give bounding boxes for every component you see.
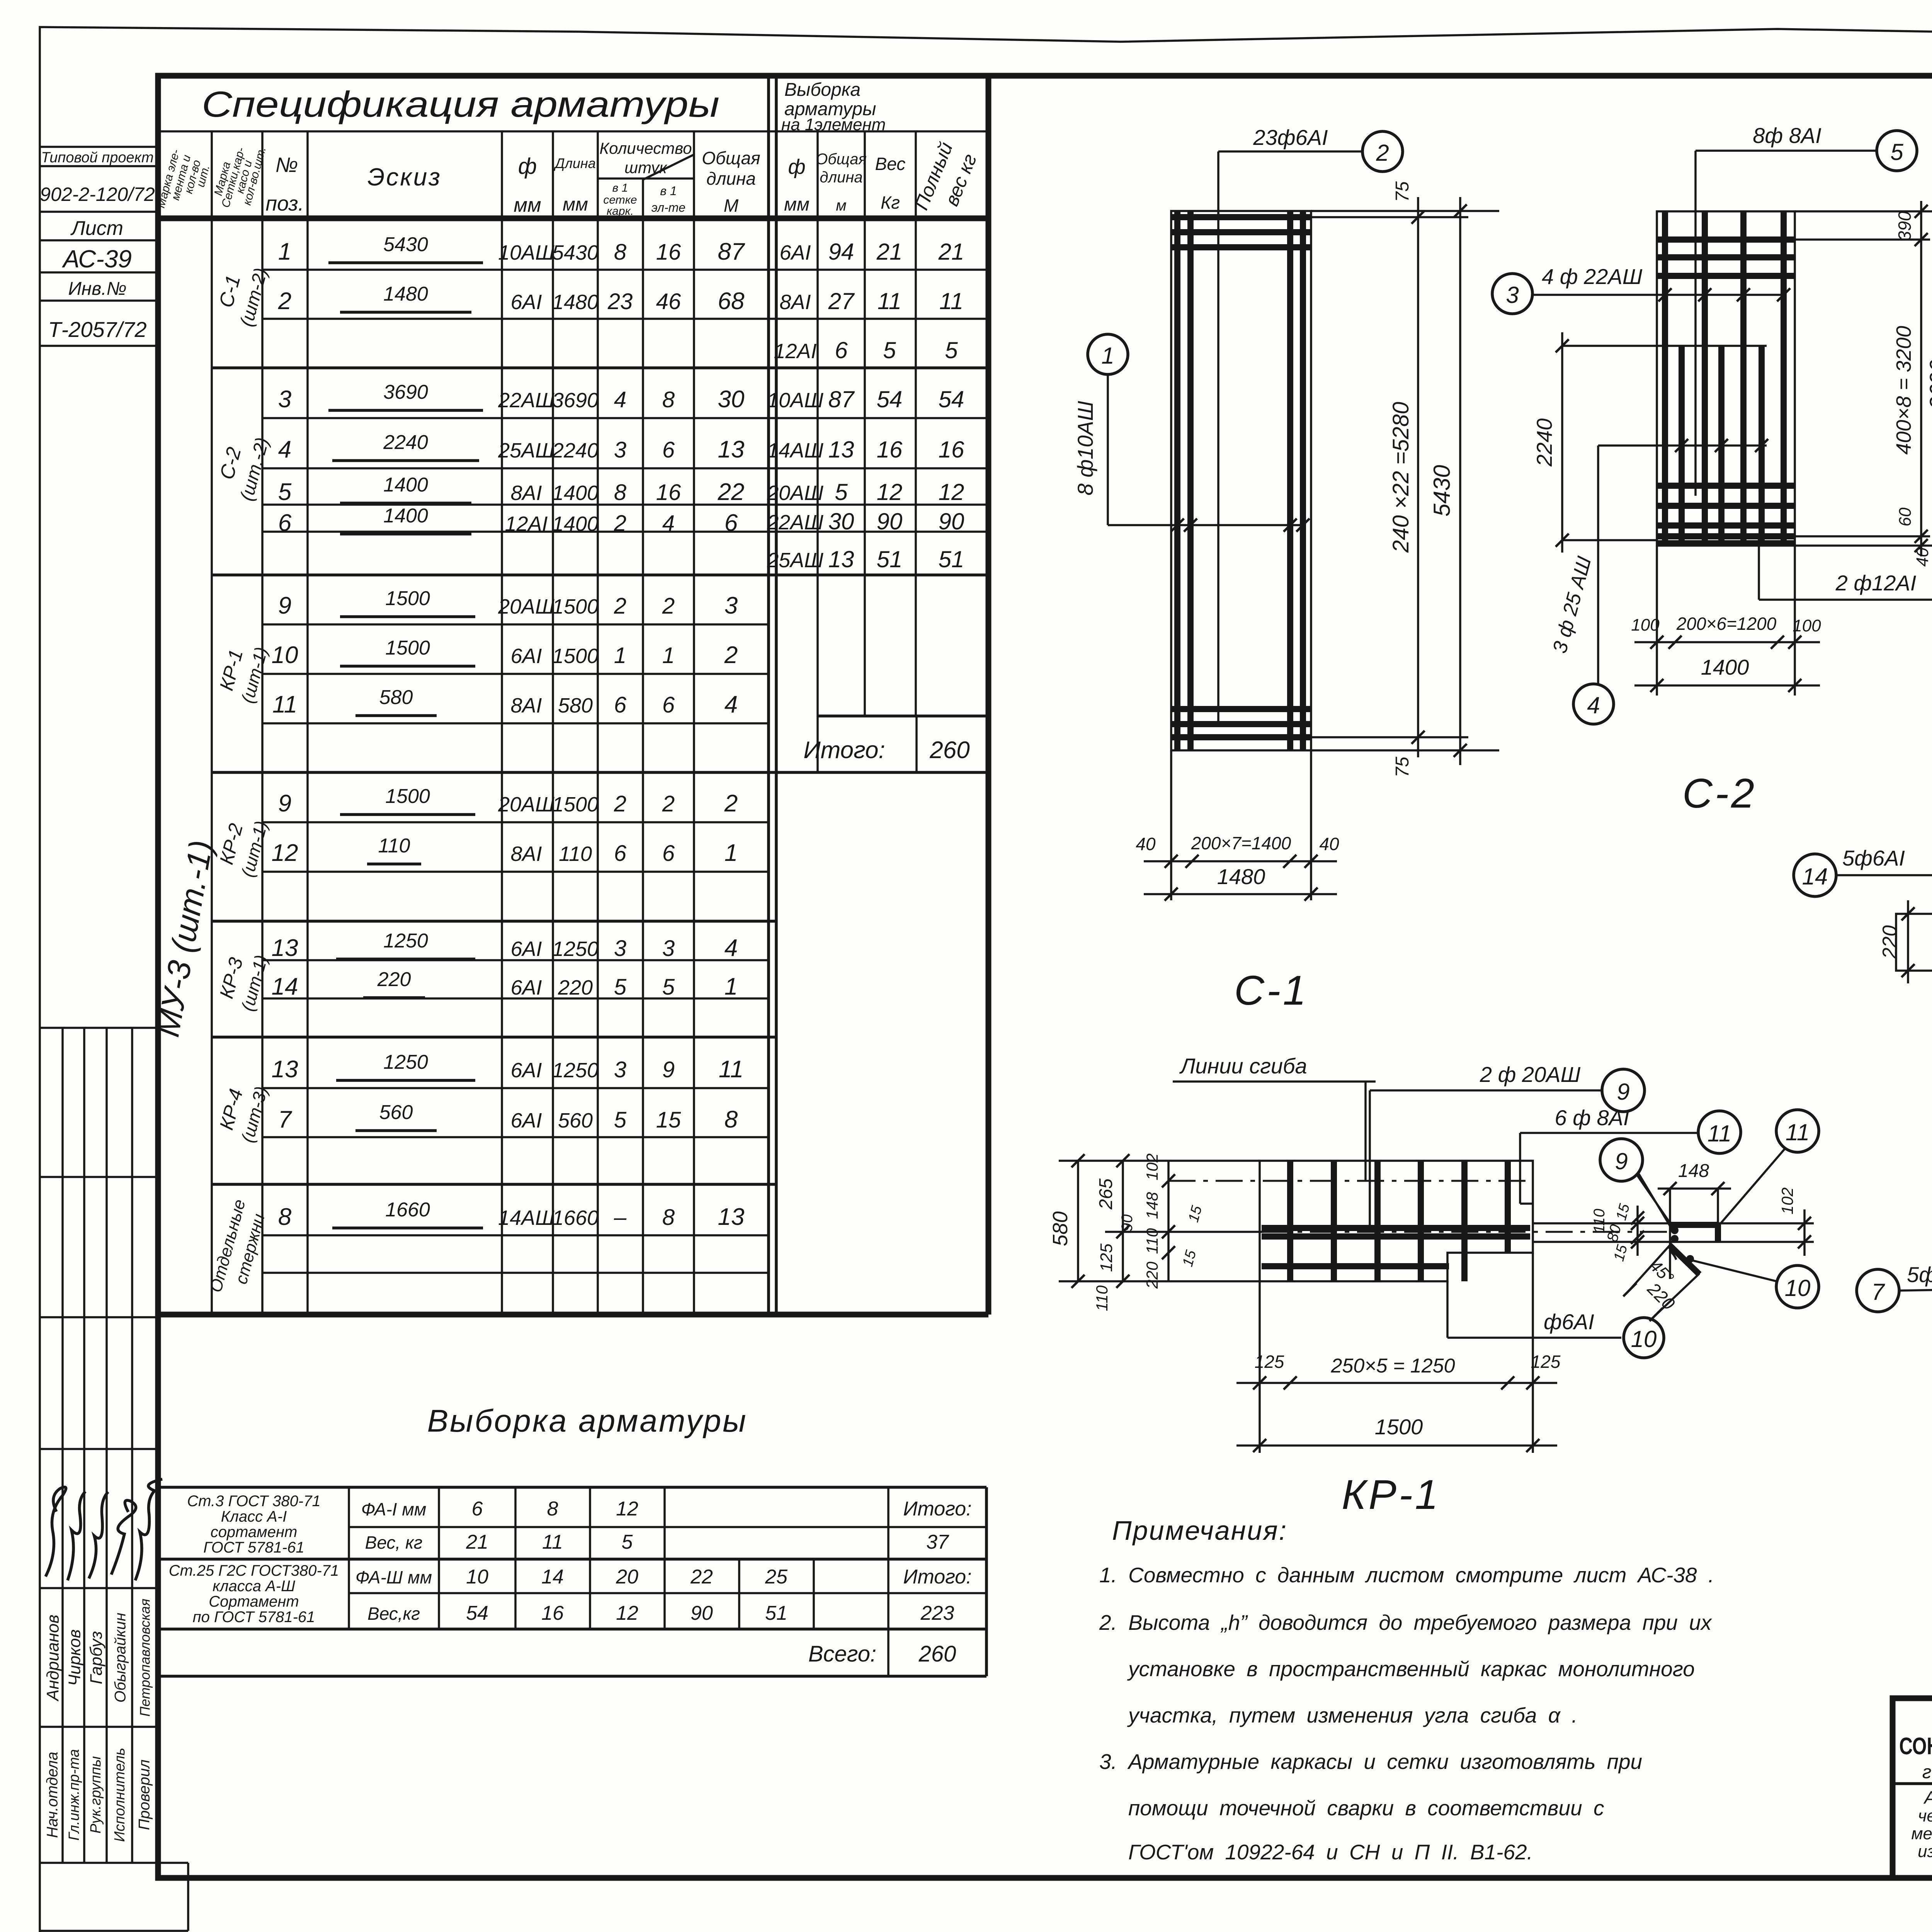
- svg-text:14АШ: 14АШ: [767, 439, 823, 462]
- svg-text:125: 125: [1255, 1352, 1284, 1372]
- svg-text:6 ф 8АI: 6 ф 8АI: [1554, 1105, 1629, 1130]
- svg-text:мерами коридора 9×5,2 ×120: мерами коридора 9×5,2 ×120: [1911, 1824, 1932, 1843]
- svg-text:Исполнитель: Исполнитель: [112, 1748, 128, 1842]
- svg-text:5ф6АI: 5ф6АI: [1907, 1262, 1932, 1287]
- svg-text:5430: 5430: [1429, 465, 1455, 516]
- svg-text:СОЮЗВОДОКАНАЛПРОЕКТ: СОЮЗВОДОКАНАЛПРОЕКТ: [1899, 1733, 1932, 1760]
- svg-text:13: 13: [272, 1056, 298, 1083]
- svg-text:15: 15: [656, 1107, 681, 1133]
- svg-text:200×6=1200: 200×6=1200: [1676, 614, 1777, 634]
- svg-text:г. Москва: г. Москва: [1922, 1762, 1932, 1782]
- svg-text:Вес,кг: Вес,кг: [367, 1604, 420, 1624]
- svg-text:Итого:: Итого:: [903, 1566, 971, 1588]
- svg-text:Итого:: Итого:: [803, 737, 885, 764]
- svg-text:3690: 3690: [1925, 359, 1932, 409]
- svg-text:580: 580: [558, 694, 593, 717]
- svg-text:3: 3: [614, 936, 626, 961]
- svg-text:Нач.отдела: Нач.отдела: [44, 1752, 61, 1838]
- svg-text:на 1элемент: на 1элемент: [781, 115, 886, 134]
- svg-text:54: 54: [939, 386, 964, 412]
- svg-text:6АI: 6АI: [510, 1059, 542, 1082]
- svg-text:мм: мм: [514, 194, 541, 216]
- svg-text:10: 10: [1785, 1275, 1811, 1301]
- svg-text:94: 94: [828, 239, 854, 265]
- svg-text:2: 2: [614, 511, 626, 536]
- svg-text:110: 110: [1143, 1228, 1161, 1254]
- svg-text:8: 8: [662, 1205, 675, 1230]
- svg-text:148: 148: [1678, 1161, 1709, 1181]
- svg-text:Гарбуз: Гарбуз: [87, 1631, 106, 1684]
- svg-text:8АI: 8АI: [510, 694, 542, 717]
- svg-text:13: 13: [272, 935, 298, 961]
- svg-text:четырехкоридорные с раз-: четырехкоридорные с раз-: [1918, 1806, 1932, 1825]
- svg-text:223: 223: [920, 1602, 954, 1624]
- svg-text:9: 9: [1615, 1148, 1628, 1174]
- svg-text:14: 14: [272, 973, 298, 1000]
- svg-text:16: 16: [656, 480, 681, 505]
- svg-text:эл-те: эл-те: [651, 201, 685, 214]
- svg-text:40: 40: [1136, 834, 1156, 854]
- svg-text:сортамент: сортамент: [211, 1524, 298, 1541]
- svg-text:2: 2: [614, 791, 626, 816]
- svg-text:5430: 5430: [383, 233, 428, 256]
- svg-text:10АШ: 10АШ: [498, 241, 554, 264]
- svg-text:100: 100: [1793, 616, 1821, 635]
- svg-text:Общая: Общая: [702, 148, 760, 168]
- svg-text:6АI: 6АI: [510, 645, 542, 668]
- svg-text:22: 22: [690, 1566, 713, 1588]
- svg-text:148: 148: [1143, 1192, 1161, 1219]
- svg-text:1660: 1660: [552, 1206, 599, 1230]
- svg-text:класса А-Ш: класса А-Ш: [213, 1578, 295, 1595]
- svg-text:Лист: Лист: [70, 217, 123, 240]
- svg-text:1: 1: [724, 840, 738, 866]
- svg-text:2: 2: [724, 642, 738, 668]
- svg-text:13: 13: [718, 436, 745, 463]
- svg-text:1480: 1480: [1217, 864, 1265, 889]
- svg-text:110: 110: [1093, 1285, 1111, 1311]
- svg-text:№: №: [276, 153, 298, 177]
- svg-text:200×7=1400: 200×7=1400: [1191, 833, 1291, 853]
- svg-text:4: 4: [1587, 692, 1600, 718]
- svg-text:1: 1: [1101, 343, 1114, 369]
- left info boxes: [40, 147, 158, 346]
- specification table grid: [161, 76, 988, 1315]
- svg-text:13: 13: [828, 546, 854, 572]
- svg-text:6: 6: [472, 1498, 483, 1520]
- svg-text:90: 90: [1119, 1214, 1136, 1232]
- svg-text:3: 3: [614, 1057, 626, 1082]
- svg-text:1: 1: [614, 643, 626, 668]
- svg-text:16: 16: [877, 437, 903, 463]
- svg-text:560: 560: [379, 1101, 413, 1124]
- svg-text:240 ×22 =5280: 240 ×22 =5280: [1388, 402, 1413, 553]
- svg-text:С-2: С-2: [1682, 770, 1757, 816]
- svg-text:13: 13: [718, 1204, 745, 1230]
- svg-text:6: 6: [662, 437, 675, 463]
- svg-text:110: 110: [559, 842, 592, 866]
- svg-text:16: 16: [939, 437, 964, 463]
- svg-text:87: 87: [718, 238, 745, 265]
- svg-text:штук: штук: [624, 158, 668, 177]
- svg-text:25АШ: 25АШ: [767, 549, 823, 572]
- svg-text:3: 3: [278, 386, 291, 413]
- svg-text:23ф6АI: 23ф6АI: [1253, 125, 1328, 150]
- svg-text:9: 9: [662, 1057, 675, 1082]
- svg-text:20АШ: 20АШ: [498, 793, 554, 816]
- svg-text:3. Арматурные каркасы и сет: 3. Арматурные каркасы и сетки изготовлят…: [1099, 1750, 1642, 1774]
- svg-text:Длина: Длина: [553, 155, 596, 171]
- svg-text:5: 5: [1890, 139, 1903, 165]
- left signature strip table: [40, 1028, 188, 1931]
- svg-text:6: 6: [724, 510, 738, 536]
- svg-text:4 ф 22АШ: 4 ф 22АШ: [1542, 264, 1643, 289]
- svg-text:46: 46: [656, 289, 681, 314]
- svg-text:2240: 2240: [552, 439, 599, 462]
- svg-text:Инв.№: Инв.№: [68, 279, 126, 299]
- svg-text:90: 90: [877, 509, 903, 534]
- svg-text:11: 11: [1786, 1119, 1810, 1145]
- svg-text:Петропавловская: Петропавловская: [137, 1599, 153, 1716]
- svg-text:1: 1: [278, 238, 291, 265]
- svg-text:20: 20: [616, 1566, 638, 1588]
- svg-text:Ст.3 ГОСТ 380-71: Ст.3 ГОСТ 380-71: [187, 1493, 320, 1510]
- svg-text:6: 6: [662, 841, 675, 866]
- svg-text:2: 2: [614, 594, 626, 619]
- svg-text:22АШ: 22АШ: [767, 511, 823, 534]
- svg-text:5: 5: [614, 975, 627, 1000]
- svg-text:6АI: 6АI: [779, 241, 811, 264]
- svg-text:6АI: 6АI: [510, 1109, 542, 1132]
- svg-text:1480: 1480: [383, 283, 428, 305]
- svg-text:1. Совместно с данным листо: 1. Совместно с данным листом смотрите ли…: [1099, 1563, 1714, 1587]
- svg-text:по ГОСТ 5781-61: по ГОСТ 5781-61: [193, 1609, 315, 1626]
- svg-text:51: 51: [939, 546, 964, 572]
- left dim stack: [1077, 1161, 1079, 1281]
- svg-text:мм: мм: [784, 194, 810, 215]
- signatures squiggles: [46, 1487, 66, 1577]
- svg-text:12: 12: [272, 840, 298, 866]
- svg-text:ф: ф: [788, 155, 805, 179]
- svg-text:1500: 1500: [552, 595, 599, 618]
- svg-text:Класс А-I: Класс А-I: [221, 1508, 287, 1525]
- svg-text:2 ф12АI: 2 ф12АI: [1835, 571, 1917, 595]
- svg-text:11: 11: [1708, 1121, 1731, 1146]
- svg-text:2: 2: [724, 790, 738, 817]
- svg-text:длина: длина: [820, 169, 862, 186]
- svg-text:8ф 8АI: 8ф 8АI: [1753, 123, 1821, 148]
- svg-text:21: 21: [876, 239, 903, 265]
- svg-text:54: 54: [466, 1602, 488, 1624]
- svg-text:1500: 1500: [552, 645, 599, 668]
- svg-text:Гл.инж.пр-та: Гл.инж.пр-та: [66, 1749, 82, 1841]
- bottom dims: [1259, 1281, 1261, 1453]
- svg-text:1500: 1500: [385, 785, 430, 808]
- svg-text:Спецификация арматуры: Спецификация арматуры: [202, 84, 719, 124]
- svg-text:1480: 1480: [552, 291, 599, 314]
- notes: [1099, 1515, 1714, 1864]
- svg-text:12АI: 12АI: [505, 512, 548, 536]
- svg-text:22АШ: 22АШ: [498, 389, 554, 412]
- svg-text:220: 220: [558, 976, 593, 999]
- svg-text:8: 8: [662, 387, 675, 412]
- svg-text:ф6АI: ф6АI: [1544, 1310, 1594, 1334]
- svg-text:ф: ф: [518, 154, 537, 179]
- svg-text:102: 102: [1143, 1153, 1161, 1180]
- svg-text:6: 6: [614, 692, 627, 718]
- svg-text:14: 14: [1802, 864, 1828, 889]
- svg-text:Примечания:: Примечания:: [1112, 1515, 1287, 1546]
- svg-text:Андрианов: Андрианов: [44, 1615, 63, 1702]
- svg-text:8: 8: [547, 1498, 558, 1520]
- svg-text:1500: 1500: [1375, 1415, 1423, 1439]
- svg-text:6АI: 6АI: [510, 976, 542, 999]
- svg-text:Выборка арматуры: Выборка арматуры: [427, 1403, 747, 1439]
- svg-text:8: 8: [724, 1106, 738, 1133]
- svg-text:карк.: карк.: [607, 205, 634, 218]
- svg-text:11: 11: [719, 1056, 743, 1083]
- svg-text:1660: 1660: [385, 1199, 430, 1221]
- svg-text:5ф6АI: 5ф6АI: [1842, 846, 1905, 870]
- svg-text:40: 40: [1319, 834, 1339, 854]
- summary table: [159, 1487, 986, 1676]
- svg-text:4: 4: [662, 511, 675, 536]
- svg-text:21: 21: [938, 239, 964, 265]
- svg-text:2240: 2240: [383, 431, 428, 454]
- svg-text:87: 87: [828, 386, 855, 412]
- svg-text:2: 2: [278, 288, 291, 315]
- svg-text:12: 12: [616, 1498, 638, 1520]
- svg-text:Т-2057/72: Т-2057/72: [48, 317, 146, 342]
- svg-text:Ст.25 Г2С ГОСТ380-71: Ст.25 Г2С ГОСТ380-71: [169, 1562, 339, 1579]
- svg-text:11: 11: [878, 288, 901, 314]
- svg-text:2. Высота „h” доводится до тр: 2. Высота „h” доводится до требуемого ра…: [1099, 1611, 1713, 1634]
- svg-text:Рук.группы: Рук.группы: [88, 1756, 104, 1833]
- svg-text:16: 16: [656, 240, 681, 265]
- svg-text:6: 6: [835, 337, 848, 363]
- svg-text:102: 102: [1778, 1187, 1796, 1214]
- svg-text:580: 580: [1049, 1211, 1072, 1246]
- svg-text:16: 16: [541, 1602, 564, 1624]
- svg-text:установке в пространственный: установке в пространственный каркас моно…: [1127, 1657, 1695, 1681]
- svg-text:51: 51: [877, 546, 903, 572]
- svg-text:7: 7: [278, 1106, 293, 1133]
- svg-text:КР-1: КР-1: [1342, 1471, 1440, 1518]
- svg-text:2240: 2240: [1532, 418, 1556, 467]
- svg-text:51: 51: [765, 1602, 787, 1624]
- svg-text:3: 3: [1506, 282, 1519, 308]
- svg-text:Линии сгиба: Линии сгиба: [1179, 1054, 1307, 1078]
- svg-text:3: 3: [662, 936, 675, 961]
- svg-text:Вес: Вес: [875, 154, 906, 174]
- svg-text:6АI: 6АI: [510, 937, 542, 961]
- svg-text:4: 4: [724, 691, 738, 718]
- svg-text:11: 11: [542, 1531, 563, 1553]
- svg-text:1: 1: [662, 643, 675, 668]
- svg-text:580: 580: [379, 686, 413, 709]
- svg-text:Общая: Общая: [816, 151, 867, 168]
- svg-text:1500: 1500: [385, 637, 430, 659]
- svg-text:22: 22: [718, 479, 745, 505]
- svg-text:из сборного железобетона: из сборного железобетона: [1918, 1842, 1932, 1861]
- svg-text:90: 90: [690, 1602, 713, 1624]
- svg-text:1400: 1400: [383, 474, 428, 496]
- svg-text:902-2-120/72: 902-2-120/72: [40, 184, 155, 205]
- svg-text:6: 6: [614, 841, 627, 866]
- svg-text:мм: мм: [563, 194, 588, 215]
- svg-text:1250: 1250: [383, 930, 428, 952]
- svg-text:260: 260: [929, 737, 969, 764]
- svg-text:2: 2: [662, 791, 675, 816]
- svg-text:5: 5: [945, 337, 958, 363]
- svg-text:220: 220: [377, 968, 411, 991]
- svg-text:ФА-I мм: ФА-I мм: [361, 1499, 427, 1519]
- svg-text:Обыграйкин: Обыграйкин: [112, 1613, 129, 1703]
- svg-text:220: 220: [1143, 1261, 1161, 1289]
- svg-text:1500: 1500: [552, 793, 599, 816]
- svg-text:Эскиз: Эскиз: [367, 163, 442, 191]
- svg-text:5430: 5430: [552, 241, 599, 264]
- svg-text:30: 30: [828, 509, 854, 534]
- svg-text:ГОСТ 5781-61: ГОСТ 5781-61: [203, 1539, 304, 1556]
- svg-text:6АI: 6АI: [510, 291, 542, 314]
- svg-text:С-1: С-1: [1234, 967, 1308, 1014]
- svg-text:1250: 1250: [552, 937, 599, 961]
- svg-text:30: 30: [718, 386, 745, 413]
- svg-text:90: 90: [939, 509, 964, 534]
- svg-text:поз.: поз.: [265, 192, 304, 215]
- svg-text:6: 6: [278, 510, 292, 536]
- svg-text:125: 125: [1531, 1352, 1561, 1372]
- svg-text:3: 3: [724, 592, 738, 619]
- svg-text:8: 8: [278, 1204, 292, 1230]
- svg-text:помощи точечной сварки в со: помощи точечной сварки в соответствии с: [1128, 1796, 1604, 1820]
- svg-text:8 ф10АШ: 8 ф10АШ: [1073, 401, 1097, 495]
- svg-text:1250: 1250: [383, 1051, 428, 1073]
- svg-text:1500: 1500: [385, 587, 430, 610]
- svg-text:м: м: [836, 197, 846, 214]
- svg-text:1400: 1400: [383, 505, 428, 527]
- svg-text:12АI: 12АI: [774, 340, 816, 363]
- svg-text:М: М: [724, 196, 739, 216]
- svg-text:75: 75: [1392, 757, 1413, 777]
- svg-text:Чирков: Чирков: [65, 1629, 84, 1686]
- svg-text:5: 5: [614, 1107, 627, 1133]
- svg-text:60: 60: [1896, 507, 1915, 526]
- specification table data: [149, 233, 969, 1294]
- svg-text:в 1: в 1: [660, 184, 677, 198]
- svg-text:10: 10: [466, 1566, 488, 1588]
- svg-text:Выборка: Выборка: [784, 80, 861, 100]
- svg-text:25АШ: 25АШ: [498, 439, 554, 462]
- svg-text:265: 265: [1096, 1179, 1116, 1210]
- svg-text:5: 5: [883, 337, 896, 363]
- svg-text:40: 40: [1913, 548, 1932, 566]
- svg-text:9: 9: [278, 592, 291, 619]
- svg-text:260: 260: [918, 1641, 956, 1667]
- svg-text:68: 68: [718, 288, 745, 315]
- svg-text:400×8 = 3200: 400×8 = 3200: [1892, 326, 1915, 454]
- svg-text:8АI: 8АI: [510, 842, 542, 866]
- svg-text:Кг: Кг: [881, 192, 900, 213]
- svg-text:АС-39: АС-39: [61, 245, 132, 273]
- svg-text:Вес, кг: Вес, кг: [365, 1532, 423, 1553]
- svg-text:–: –: [614, 1205, 627, 1230]
- svg-text:13: 13: [828, 437, 854, 463]
- svg-text:250×5 = 1250: 250×5 = 1250: [1331, 1355, 1455, 1377]
- svg-text:1400: 1400: [552, 512, 599, 536]
- svg-text:Проверил: Проверил: [136, 1760, 153, 1830]
- svg-text:8: 8: [614, 240, 626, 265]
- svg-text:9: 9: [278, 790, 291, 817]
- svg-text:220: 220: [1879, 925, 1901, 959]
- svg-text:Сортамент: Сортамент: [209, 1593, 299, 1610]
- svg-text:участка, путем изменения угл: участка, путем изменения угла сгиба α .: [1127, 1703, 1578, 1727]
- svg-text:14АШ: 14АШ: [498, 1206, 554, 1230]
- svg-text:37: 37: [926, 1531, 949, 1553]
- svg-text:560: 560: [558, 1109, 593, 1132]
- svg-text:7: 7: [1871, 1279, 1885, 1305]
- svg-text:125: 125: [1097, 1243, 1116, 1272]
- svg-text:8АI: 8АI: [779, 291, 811, 314]
- svg-text:20АШ: 20АШ: [767, 481, 823, 505]
- svg-text:3690: 3690: [383, 381, 428, 403]
- svg-text:1400: 1400: [552, 481, 599, 505]
- svg-text:ГОСТ'ом 10922-64 и СН и П I: ГОСТ'ом 10922-64 и СН и П II. В1-62.: [1128, 1840, 1533, 1864]
- svg-text:110: 110: [1591, 1209, 1608, 1233]
- линии сгиба label left: [1173, 1054, 1376, 1181]
- svg-text:6: 6: [662, 692, 675, 718]
- svg-text:12: 12: [616, 1602, 638, 1624]
- svg-text:75: 75: [1392, 181, 1413, 202]
- svg-text:10АШ: 10АШ: [767, 389, 823, 412]
- svg-text:10: 10: [272, 642, 298, 668]
- svg-text:11: 11: [939, 288, 963, 314]
- svg-text:21: 21: [466, 1531, 488, 1553]
- svg-text:3: 3: [614, 437, 626, 463]
- svg-text:1250: 1250: [552, 1059, 599, 1082]
- svg-text:12: 12: [877, 479, 903, 505]
- svg-text:8: 8: [614, 480, 626, 505]
- svg-text:Типовой проект: Типовой проект: [41, 150, 153, 166]
- svg-text:1: 1: [724, 973, 738, 1000]
- svg-text:4: 4: [278, 436, 291, 463]
- svg-text:14: 14: [541, 1566, 564, 1588]
- specification table headers: [155, 80, 981, 218]
- svg-text:Всего:: Всего:: [808, 1641, 876, 1667]
- svg-text:Количество: Количество: [599, 139, 692, 157]
- svg-text:5: 5: [278, 479, 292, 505]
- svg-text:длина: длина: [706, 168, 756, 189]
- svg-text:25: 25: [765, 1566, 788, 1588]
- svg-text:1400: 1400: [1701, 655, 1749, 679]
- svg-text:5: 5: [662, 975, 675, 1000]
- svg-text:110: 110: [378, 835, 410, 857]
- svg-text:Итого:: Итого:: [903, 1498, 971, 1520]
- svg-text:8АI: 8АI: [510, 481, 542, 505]
- svg-text:2: 2: [1376, 140, 1389, 166]
- svg-text:2: 2: [662, 594, 675, 619]
- svg-text:9: 9: [1617, 1079, 1629, 1105]
- right bend detail: [1533, 1222, 1814, 1225]
- svg-text:3690: 3690: [552, 389, 599, 412]
- svg-text:4: 4: [614, 387, 626, 412]
- svg-text:2 ф 20АШ: 2 ф 20АШ: [1480, 1062, 1581, 1087]
- svg-text:4: 4: [724, 935, 738, 961]
- svg-text:54: 54: [877, 386, 903, 412]
- svg-text:390: 390: [1895, 211, 1915, 241]
- svg-text:5: 5: [835, 479, 848, 505]
